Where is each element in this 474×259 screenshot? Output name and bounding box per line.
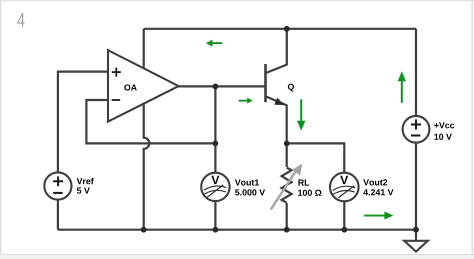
wire Vout2 bottom to ground rail [343,201,345,229]
Vcc minus mark [411,135,421,137]
junction dot ground rail at op-amp V- [141,227,147,233]
resistor RL zigzag [282,168,292,203]
ground symbol [404,241,428,252]
wire noninverting input to Vref top [58,72,108,173]
Vcc plus mark [411,124,421,126]
voltage source Vref circle [44,172,71,199]
voltmeter Vout2 circle [330,173,359,202]
label RL [298,180,309,186]
page number 4 [17,13,24,26]
junction dot ground rail at ground symbol [413,227,419,233]
wire top rail [144,28,416,30]
label Vout2 [363,179,387,185]
op-amp minus input mark [112,99,121,101]
wire Vcc minus terminal to ground rail [415,143,417,230]
Vout2 meter scale arcs [333,186,356,190]
current arrow down at emitter [297,99,305,130]
current arrow left on top rail [206,40,222,47]
wire Vout1 bottom to ground rail [214,201,216,230]
junction dot collector at top rail [284,26,290,32]
Vout1 meter needle [207,185,223,198]
Vout1 meter scale arcs [204,186,227,190]
Vref minus mark [53,192,63,194]
voltmeter Vout1 V mark [211,176,219,184]
label Vout1 [235,179,259,185]
current arrow right on bottom rail [364,212,393,220]
voltmeter Vout1 circle [201,173,229,201]
wire emitter node to RL top [286,143,288,167]
transistor label Q [288,84,294,92]
wire emitter node to Vout2 top [287,143,345,172]
current arrow right at base [239,98,253,104]
wire RL bottom to ground rail [286,203,288,230]
voltmeter Vout2 V mark [340,176,348,184]
junction dot ground rail at Vout2 [341,227,347,233]
junction dot emitter node [284,141,290,147]
label 5 V [77,188,90,194]
label 100 ohm [298,190,321,196]
wire inverting input feedback [86,100,215,143]
label 5.000 V [235,189,265,195]
wire top rail to Vcc plus terminal [415,29,417,116]
junction dot ground rail at RL [284,227,290,233]
op-amp plus input mark [112,71,121,73]
current arrow up at Vcc [398,71,406,103]
label 4.241 V [363,189,393,195]
Vout2 meter needle [338,186,354,198]
wire op-amp output to base [177,85,266,87]
Vref plus mark [53,180,63,182]
resistor RL variable (wiper) arrow [271,169,297,209]
voltage source +Vcc circle [403,116,430,143]
wire ground stub [415,230,417,241]
junction dot output node at base wire [213,84,219,90]
wire Vref bottom to ground rail [57,200,59,230]
transistor base bar [264,64,267,102]
wire op-amp V+ supply from top rail [143,29,145,85]
label Vref [77,178,94,184]
transistor collector to top rail [266,29,287,73]
junction dot feedback joins Vout1 line [213,141,219,147]
transistor Q [266,29,287,144]
junction dot ground rail at Vout1 [213,227,219,233]
label 10 V [434,134,451,140]
wire output node down to Vout1 [214,86,216,172]
transistor emitter [266,96,287,143]
wire op-amp V- supply to ground rail with hop over feedback [144,85,150,230]
label +Vcc [434,122,454,128]
op-amp label OA [124,84,137,90]
op-amp OA triangle [108,50,179,121]
wire bottom ground rail [58,229,416,231]
transistor emitter arrowhead [274,98,284,105]
